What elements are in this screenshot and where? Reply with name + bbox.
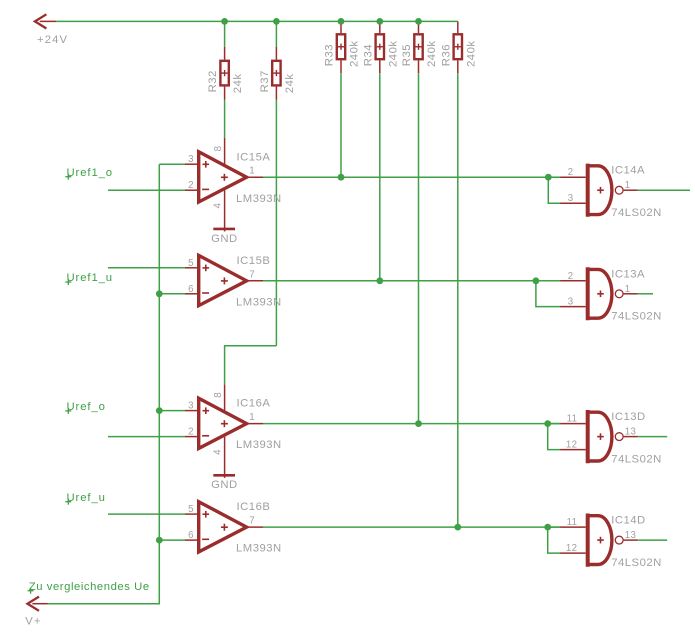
- svg-text:8: 8: [213, 392, 224, 398]
- svg-text:IC15B: IC15B: [237, 255, 271, 267]
- svg-text:Uref1_o: Uref1_o: [67, 167, 114, 179]
- svg-text:11: 11: [567, 517, 578, 528]
- svg-text:3: 3: [188, 154, 194, 165]
- svg-text:240k: 240k: [387, 41, 399, 68]
- svg-text:8: 8: [213, 146, 224, 152]
- svg-text:IC13A: IC13A: [611, 268, 645, 280]
- svg-text:11: 11: [567, 414, 578, 425]
- svg-text:5: 5: [188, 504, 194, 515]
- svg-text:3: 3: [568, 193, 574, 204]
- svg-text:4: 4: [212, 449, 223, 455]
- svg-text:R32: R32: [207, 70, 219, 92]
- svg-text:R35: R35: [401, 44, 413, 66]
- svg-text:Uref_u: Uref_u: [67, 492, 106, 504]
- svg-text:LM393N: LM393N: [236, 296, 282, 308]
- svg-text:LM393N: LM393N: [236, 193, 282, 205]
- svg-text:24k: 24k: [232, 73, 244, 93]
- svg-text:R34: R34: [362, 44, 374, 66]
- svg-text:R36: R36: [440, 44, 452, 66]
- svg-text:2: 2: [188, 180, 194, 191]
- svg-text:LM393N: LM393N: [236, 439, 282, 451]
- svg-text:1: 1: [249, 166, 255, 177]
- svg-text:240k: 240k: [349, 41, 361, 68]
- svg-text:LM393N: LM393N: [236, 543, 282, 555]
- svg-text:24k: 24k: [284, 73, 296, 93]
- svg-text:IC16A: IC16A: [237, 398, 271, 410]
- svg-text:74LS02N: 74LS02N: [611, 207, 662, 219]
- svg-text:Zu vergleichendes Ue: Zu vergleichendes Ue: [29, 581, 150, 593]
- svg-text:7: 7: [249, 269, 255, 280]
- svg-text:1: 1: [625, 180, 631, 191]
- svg-text:IC16B: IC16B: [237, 501, 271, 513]
- svg-text:13: 13: [625, 530, 636, 541]
- svg-text:+24V: +24V: [37, 34, 68, 46]
- svg-text:7: 7: [249, 516, 255, 527]
- svg-text:3: 3: [188, 401, 194, 412]
- svg-text:2: 2: [568, 271, 574, 282]
- svg-text:GND: GND: [211, 233, 238, 245]
- svg-text:IC15A: IC15A: [237, 151, 271, 163]
- svg-text:6: 6: [188, 530, 194, 541]
- svg-text:R37: R37: [259, 70, 271, 92]
- svg-text:6: 6: [188, 284, 194, 295]
- svg-text:GND: GND: [211, 479, 238, 491]
- svg-text:74LS02N: 74LS02N: [611, 557, 662, 569]
- svg-text:IC14D: IC14D: [611, 515, 646, 527]
- svg-text:12: 12: [566, 543, 577, 554]
- svg-text:1: 1: [249, 412, 255, 423]
- svg-text:4: 4: [212, 203, 223, 209]
- svg-text:3: 3: [568, 297, 574, 308]
- svg-text:13: 13: [625, 427, 636, 438]
- svg-text:IC14A: IC14A: [611, 165, 645, 177]
- svg-text:IC13D: IC13D: [611, 411, 646, 423]
- svg-text:5: 5: [188, 258, 194, 269]
- svg-text:74LS02N: 74LS02N: [611, 453, 662, 465]
- svg-text:V+: V+: [25, 616, 41, 628]
- svg-text:240k: 240k: [426, 41, 438, 68]
- svg-text:2: 2: [188, 427, 194, 438]
- svg-text:12: 12: [566, 440, 577, 451]
- svg-text:Uref_o: Uref_o: [67, 401, 106, 413]
- svg-text:74LS02N: 74LS02N: [611, 311, 662, 323]
- svg-text:2: 2: [568, 167, 574, 178]
- svg-text:240k: 240k: [465, 41, 477, 68]
- svg-text:R33: R33: [324, 44, 336, 66]
- svg-text:Uref1_u: Uref1_u: [67, 272, 114, 284]
- svg-text:1: 1: [625, 284, 631, 295]
